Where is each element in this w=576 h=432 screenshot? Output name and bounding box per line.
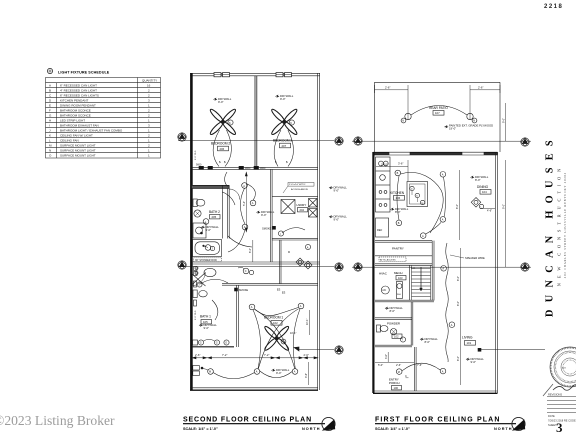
ceiling fan K bedroom 2 (209, 108, 237, 136)
light fixture schedule title (47, 68, 109, 74)
svg-text:ACCESS ABOVE: ACCESS ABOVE (291, 188, 309, 191)
svg-text:BATHROOM EXHAUST FAN: BATHROOM EXHAUST FAN (60, 124, 99, 128)
svg-text:4" RECESSED CAN LIGHT: 4" RECESSED CAN LIGHT (60, 89, 97, 93)
title block: address line (564, 172, 567, 278)
powder sink (390, 329, 396, 335)
drywall note bath 2 (201, 225, 219, 232)
kitchen cabinets (376, 157, 391, 212)
patio dim left (375, 85, 409, 120)
bath 1 toilet (193, 281, 207, 306)
sheet number 3 (556, 420, 563, 432)
svg-text:4'-6": 4'-6" (487, 210, 492, 213)
svg-text:6'-0": 6'-0" (249, 248, 252, 253)
svg-text:KITCHEN PENDANT: KITCHEN PENDANT (60, 99, 89, 103)
hall lights and wiring (225, 172, 256, 252)
patio dim right (470, 85, 500, 120)
room label living (462, 336, 476, 346)
exterior west wall first floor (372, 152, 374, 393)
bath 2 north wall hatched (192, 185, 230, 188)
svg-text:PANTRY: PANTRY (392, 247, 404, 251)
svg-text:9'-0" CLG: 9'-0" CLG (195, 150, 197, 160)
patio walls (375, 82, 501, 152)
svg-text:G: G (200, 342, 202, 345)
mid wall at stair (279, 240, 281, 284)
svg-text:DINING: DINING (477, 185, 489, 189)
room label bedroom 3 (273, 139, 292, 148)
closet door 9060 right (239, 166, 266, 170)
bathtub (193, 240, 222, 257)
svg-text:2'-10": 2'-10" (381, 162, 388, 166)
bedroom south wall (192, 167, 318, 169)
svg-text:SCALE: 1/4" = 1'-0": SCALE: 1/4" = 1'-0" (183, 427, 218, 431)
svg-text:3: 3 (556, 420, 563, 432)
svg-text:DUNCAN HOUSES: DUNCAN HOUSES (544, 133, 555, 317)
light fixture schedule table (46, 78, 161, 159)
svg-text:7'-2": 7'-2" (264, 353, 269, 357)
svg-text:BEDROOM 1: BEDROOM 1 (264, 316, 283, 320)
drywall note bedroom 2 (214, 97, 232, 104)
drywall note kitchen (391, 207, 409, 214)
svg-text:9'-0": 9'-0" (206, 228, 212, 232)
kitchen lights and wiring (395, 170, 446, 238)
svg-text:9'-0": 9'-0" (503, 204, 506, 209)
svg-text:9'-0": 9'-0" (204, 326, 210, 330)
hall west wall (221, 185, 223, 238)
bath 2 door swing (229, 189, 240, 200)
living dim vertical (457, 248, 460, 385)
window bedroom 3 (276, 73, 292, 77)
ceiling fan K bedroom 3 (270, 108, 298, 136)
svg-text:8'-0": 8'-0" (457, 276, 460, 281)
svg-text:8'-0": 8'-0" (456, 204, 459, 209)
pantry south wall (375, 255, 432, 257)
architect stamp (543, 347, 576, 396)
dryer boxes (309, 199, 318, 218)
AC unit (381, 286, 389, 294)
svg-text:2'-6": 2'-6" (385, 86, 390, 90)
svg-text:106: 106 (396, 196, 401, 200)
room label bedroom 1 (264, 316, 283, 326)
svg-text:G: G (216, 342, 218, 345)
shower rod note (194, 258, 222, 262)
kitchen pendants D (410, 186, 425, 204)
tub light J (203, 245, 215, 251)
section marker left E (354, 263, 362, 271)
svg-text:3'-6": 3'-6" (398, 161, 403, 165)
svg-text:N: N (49, 149, 51, 153)
drywall note hall (257, 210, 275, 217)
patio lights N (401, 113, 477, 123)
svg-text:9'-0" CLG: 9'-0" CLG (195, 310, 197, 320)
section marker right A (335, 137, 343, 145)
closet door 9060 left (196, 164, 213, 170)
svg-text:9060: 9060 (196, 164, 202, 167)
laundry wiring (278, 228, 305, 236)
speaker wire label (450, 255, 485, 260)
svg-text:BEDROOM 3: BEDROOM 3 (273, 139, 292, 143)
svg-text:6" RECESSED CAN LIGHTS: 6" RECESSED CAN LIGHTS (60, 94, 99, 98)
section line B (178, 266, 334, 268)
svg-text:C: C (405, 374, 407, 378)
svg-text:9060: 9060 (245, 167, 251, 170)
wall fixture marker living (478, 348, 545, 351)
exterior top wall (190, 74, 320, 76)
svg-text:8'-0": 8'-0" (457, 356, 460, 361)
drywall note bath 1 (199, 323, 217, 330)
svg-text:SURFACE MOUNT LIGHT: SURFACE MOUNT LIGHT (60, 144, 96, 148)
patio wiring arc (411, 106, 467, 116)
section line A (178, 140, 334, 142)
exterior right wall (318, 73, 320, 390)
hall south wall (192, 262, 320, 264)
laundry west wall (270, 169, 272, 262)
water heater (396, 282, 402, 299)
porch dim line (375, 352, 422, 367)
laundry south wall (272, 238, 318, 240)
table text (49, 79, 157, 158)
wall between bedrooms (255, 76, 257, 167)
svg-text:19'-0": 19'-0" (449, 127, 456, 131)
svg-text:402 CHARLES STREET LOUISVILLE: 402 CHARLES STREET LOUISVILLE KENTUCKY 4… (564, 172, 567, 278)
exterior east wall first floor (496, 152, 498, 393)
svg-text:KY: KY (562, 366, 566, 370)
svg-text:5'-0": 5'-0" (378, 363, 383, 367)
second floor title (183, 417, 325, 432)
room label kitchen (390, 191, 405, 200)
svg-text:NORTH: NORTH (494, 427, 513, 431)
switch S3 pair (277, 288, 286, 295)
svg-text:6" RECESSED CAN LIGHT: 6" RECESSED CAN LIGHT (60, 84, 97, 88)
second floor north arrow (322, 417, 335, 430)
svg-text:2'-6"x4'-0" ATTIC: 2'-6"x4'-0" ATTIC (289, 183, 306, 186)
svg-text:9060: 9060 (260, 167, 266, 170)
svg-text:E: E (49, 104, 51, 108)
svg-text:FIRST FLOOR CEILING PLAN: FIRST FLOOR CEILING PLAN (375, 417, 501, 424)
fan tag K bedroom 2 (228, 120, 233, 125)
svg-text:MECH: MECH (394, 271, 403, 275)
section marker right C (335, 346, 343, 354)
watermark ©2023 Listing Broker (0, 413, 115, 428)
powder north wall (375, 318, 412, 320)
svg-text:SURFACE MOUNT LIGHT: SURFACE MOUNT LIGHT (60, 149, 96, 153)
left wall tiny notes (195, 150, 197, 320)
hall dimension line (249, 240, 253, 262)
porch wiring arc (402, 363, 440, 371)
svg-text:204: 204 (300, 208, 305, 212)
svg-text:102: 102 (273, 321, 278, 325)
room label bath 2 (209, 210, 220, 219)
hall wiring extra (223, 192, 253, 247)
svg-text:8'-0": 8'-0" (475, 178, 481, 182)
title block: NEW CONSTRUCTION (556, 164, 561, 286)
svg-text:$3: $3 (277, 288, 281, 292)
svg-text:10'-1": 10'-1" (306, 319, 309, 325)
section marker left B (178, 261, 186, 269)
exterior left wall (190, 73, 193, 390)
svg-text:LNDRY: LNDRY (297, 203, 307, 207)
svg-text:F: F (49, 109, 51, 113)
porch east wall (415, 347, 417, 391)
svg-text:DATE: DATE (548, 414, 555, 418)
svg-text:207: 207 (282, 144, 287, 148)
drywall note porch (272, 368, 290, 375)
powder exhaust light I (400, 337, 405, 342)
svg-text:WH: WH (397, 294, 401, 296)
svg-text:SMOKE: SMOKE (262, 226, 272, 230)
bedroom 1 lights A (249, 303, 304, 374)
svg-text:SURFACE MOUNT LIGHT: SURFACE MOUNT LIGHT (60, 154, 96, 158)
svg-text:HVAC: HVAC (379, 272, 387, 276)
attic access note (283, 183, 314, 194)
svg-text:2218: 2218 (544, 4, 563, 10)
bedroom 1 dim vertical (290, 310, 310, 335)
svg-text:DINING ROOM PENDANT: DINING ROOM PENDANT (60, 104, 96, 108)
living lights (440, 266, 455, 374)
svg-text:BATHROOM LIGHT / EXHAUST FAN C: BATHROOM LIGHT / EXHAUST FAN COMBO (60, 129, 123, 133)
svg-text:K: K (229, 121, 231, 125)
section marker right D (521, 138, 529, 146)
svg-text:2'-6": 2'-6" (304, 353, 309, 357)
powder toilet (377, 325, 389, 332)
svg-text:2'-6": 2'-6" (478, 86, 483, 90)
svg-text:BATHROOM SCONCE: BATHROOM SCONCE (60, 109, 91, 113)
svg-text:10'-1": 10'-1" (290, 332, 296, 335)
washer box (281, 200, 295, 214)
drywall note dining (471, 175, 489, 182)
switch wiring bedroom 3 (274, 130, 293, 167)
bedroom 1 south wall with dim line (192, 353, 318, 359)
svg-text:9'-0": 9'-0" (276, 371, 282, 375)
svg-text:8'-0": 8'-0" (457, 301, 460, 306)
room label pantry (392, 247, 404, 251)
drywall note hvac (385, 306, 403, 313)
plywood note (445, 123, 494, 130)
svg-text:SECOND FLOOR CEILING PLAN: SECOND FLOOR CEILING PLAN (183, 417, 312, 424)
svg-text:ATTIC ACCESS: ATTIC ACCESS (380, 258, 396, 261)
hvac south wall (375, 300, 434, 302)
svg-text:36" SHOWER ROD: 36" SHOWER ROD (195, 259, 217, 262)
section line E (352, 266, 531, 268)
hall wall above hvac (375, 264, 432, 270)
bath 2 toilet (193, 199, 205, 207)
svg-text:NEW CONSTRUCTION: NEW CONSTRUCTION (556, 164, 561, 286)
svg-text:M: M (398, 371, 400, 374)
svg-text:N: N (473, 120, 475, 123)
room label hvac mech (379, 271, 406, 280)
hall light fixture (296, 258, 312, 269)
room label rear patio (429, 106, 448, 115)
svg-text:3'-6": 3'-6" (385, 354, 388, 359)
bath 2 east wall (227, 185, 229, 238)
svg-text:A/C: A/C (382, 289, 386, 292)
svg-text:PORCH: PORCH (389, 381, 399, 385)
room label laundry (297, 203, 308, 212)
speaker wire (446, 243, 449, 362)
title block: DUNCAN HOUSES (544, 133, 555, 317)
svg-text:SPEAKER WIRE: SPEAKER WIRE (465, 256, 485, 260)
right dim strings (503, 103, 506, 267)
svg-text:9'-0": 9'-0" (334, 189, 340, 193)
dining dim vertical (456, 170, 495, 240)
porch dim vertical (305, 362, 309, 385)
drywall note left strip 2 (329, 214, 347, 221)
porch light (396, 369, 408, 378)
svg-text:M: M (209, 371, 211, 374)
svg-text:C: C (245, 270, 247, 273)
smoke detector hall (262, 226, 276, 230)
attic access first floor (379, 257, 406, 262)
room label bath 1 (200, 315, 212, 325)
kitchen island (407, 182, 428, 207)
bath 2 vanity (193, 223, 206, 238)
refrigerator (376, 218, 389, 237)
svg-text:BATH 2: BATH 2 (209, 210, 220, 214)
stairs (412, 265, 431, 300)
section line D (352, 140, 531, 142)
svg-text:100: 100 (394, 386, 399, 390)
section marker left D (354, 137, 362, 145)
svg-text:2'-6": 2'-6" (195, 353, 200, 357)
bath 2 exhaust fan I (203, 219, 209, 225)
svg-text:5'-4": 5'-4" (243, 201, 246, 206)
section marker left A (178, 133, 186, 141)
svg-text:LIGHT FIXTURE SCHEDULE: LIGHT FIXTURE SCHEDULE (58, 71, 110, 75)
svg-text:7'-2": 7'-2" (222, 353, 227, 357)
kitchen dim top (376, 160, 408, 181)
hvac east wall (409, 265, 411, 301)
svg-text:9'-0": 9'-0" (503, 118, 506, 123)
dining ceiling fan L (471, 198, 483, 209)
svg-text:CEILING FAN W/ LIGHT: CEILING FAN W/ LIGHT (60, 134, 93, 138)
svg-text:8'-0": 8'-0" (425, 340, 431, 344)
sheet number 2218 (544, 4, 563, 10)
svg-text:REVISIONS: REVISIONS (548, 393, 562, 397)
svg-text:B: B (49, 89, 51, 93)
svg-text:K: K (290, 121, 292, 125)
powder south wall (375, 345, 412, 347)
smoke detector bedroom 1 (235, 288, 249, 292)
svg-text:107: 107 (435, 111, 440, 115)
svg-text:REF: REF (377, 228, 383, 232)
svg-text:POWDER: POWDER (387, 322, 400, 326)
bath 2 sink (194, 210, 201, 217)
svg-text:101: 101 (467, 341, 472, 345)
hall dim line vertical (243, 172, 247, 232)
svg-text:103: 103 (398, 276, 403, 280)
main north wall (373, 152, 498, 155)
svg-text:102: 102 (394, 335, 399, 339)
svg-text:NORTH: NORTH (302, 427, 321, 431)
fan tag bedroom 1 (281, 339, 286, 344)
svg-text:16: 16 (147, 84, 151, 88)
room label dining (477, 185, 491, 194)
exterior bottom wall (190, 388, 318, 390)
svg-text:$3: $3 (282, 291, 286, 295)
drywall note left strip 1 (329, 185, 347, 192)
bath 1 wiring (197, 279, 228, 320)
exterior south wall first floor (373, 391, 498, 393)
hall lights C pair (238, 267, 254, 274)
window bedroom 2 (214, 73, 230, 77)
svg-text:LED STRIP LIGHT: LED STRIP LIGHT (60, 119, 85, 123)
bath 1 sink oval (194, 267, 217, 277)
svg-text:BATHROOM SCONCE: BATHROOM SCONCE (60, 114, 91, 118)
drywall note powder (420, 337, 438, 344)
bath 1 entry door swing (191, 273, 206, 287)
svg-text:LIVING: LIVING (462, 336, 473, 340)
vanity sconces G (193, 339, 230, 345)
pantry north wall (375, 241, 432, 243)
svg-text:REAR PATIO: REAR PATIO (429, 106, 448, 110)
switch wiring bedroom 2 (213, 130, 231, 167)
drywall note bedroom 3 (276, 94, 294, 101)
svg-text:G: G (225, 342, 227, 345)
svg-text:SMOKE: SMOKE (239, 288, 249, 292)
svg-text:BEDROOM 2: BEDROOM 2 (211, 142, 230, 146)
svg-text:SCALE: 1/4" = 1'-0": SCALE: 1/4" = 1'-0" (375, 427, 410, 431)
first floor north arrow (512, 417, 525, 430)
closet D room (288, 244, 311, 254)
fan tag K bedroom 3 (289, 120, 294, 125)
svg-text:QUANTITY: QUANTITY (142, 79, 157, 83)
svg-text:9'-0": 9'-0" (261, 213, 267, 217)
svg-text:9'-0": 9'-0" (334, 218, 340, 222)
ceiling fan K bedroom 1 (263, 325, 289, 351)
svg-text:104: 104 (482, 190, 487, 194)
stair east wall (432, 241, 434, 301)
svg-text:A: A (49, 84, 51, 88)
room label entry porch (389, 378, 402, 391)
bedroom 1 north wall (222, 283, 318, 285)
bath 1 south wall (192, 346, 234, 348)
svg-text:K: K (49, 134, 51, 138)
powder east wall (411, 302, 413, 346)
bath 1 east wall (237, 285, 239, 347)
svg-text:CEILING FAN: CEILING FAN (60, 139, 79, 143)
svg-text:9'-0": 9'-0" (218, 100, 224, 104)
svg-text:H: H (49, 119, 51, 123)
svg-text:8'-0": 8'-0" (390, 309, 396, 313)
room label powder (387, 322, 402, 339)
room label bedroom 2 (211, 142, 230, 151)
revision block lines (547, 397, 576, 413)
svg-text:205: 205 (212, 215, 217, 219)
svg-text:3'-6": 3'-6" (305, 373, 308, 378)
svg-text:BATH 1: BATH 1 (200, 315, 211, 319)
window lower left wall (193, 366, 200, 376)
bedroom 1 wiring curves (253, 308, 300, 378)
svg-text:2'-6": 2'-6" (396, 363, 401, 367)
svg-text:9'-0": 9'-0" (471, 360, 477, 364)
svg-text:206: 206 (220, 147, 225, 151)
drywall note living (466, 357, 484, 364)
svg-text:N: N (402, 120, 404, 123)
first floor title (375, 417, 516, 432)
revision block text (548, 393, 576, 427)
svg-text:9'-0": 9'-0" (280, 97, 286, 101)
section line C (294, 347, 334, 351)
porch lights M wiring (201, 367, 255, 379)
svg-text:©2023 Listing Broker: ©2023 Listing Broker (0, 413, 115, 428)
section marker right B (335, 263, 343, 271)
laundry north wall (272, 195, 318, 197)
section marker right E (521, 263, 529, 271)
